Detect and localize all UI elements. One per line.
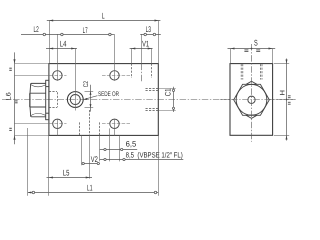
dimension L6 (vertical, far left): [5, 52, 49, 144]
V1 bore hidden lines (top): [131, 64, 133, 78]
mounting hole top-left: [53, 71, 62, 80]
svg-text:L2: L2: [34, 25, 39, 34]
hole axis verticals: [57, 34, 59, 81]
svg-text:C2: C2: [83, 81, 90, 87]
svg-text:L5: L5: [63, 168, 70, 177]
centerline overlay across side view: [220, 99, 296, 101]
hex nut face: [234, 84, 270, 115]
hole horizontal centerlines: [14, 75, 49, 77]
dimension 8,5 (VBPSE 1/2" FL): [100, 151, 184, 161]
main horizontal centerline: [2, 99, 296, 101]
dimension H: [274, 59, 291, 141]
mounting hole bottom-right: [110, 119, 119, 128]
bottom cluster extension verticals: [81, 135, 83, 165]
hex plug side view (left of block): [30, 83, 46, 116]
svg-text:C1: C1: [163, 88, 172, 96]
svg-text:L: L: [102, 12, 105, 21]
plug thread hidden lines inside block: [49, 91, 57, 93]
dimension L5: [47, 168, 93, 178]
dimension V2: [82, 155, 100, 165]
dimension L4: [46, 39, 77, 49]
dimension S: [228, 39, 276, 64]
mounting hole bottom-left: [53, 119, 62, 128]
nut chamfer circle: [236, 84, 267, 115]
plug washer / flange: [46, 80, 49, 119]
SEDE OR leader: [84, 91, 120, 100]
svg-text:V1: V1: [142, 39, 149, 48]
dimension V1: [130, 39, 153, 49]
svg-text:L7: L7: [83, 26, 88, 35]
svg-text:SEDE OR: SEDE OR: [98, 91, 119, 98]
svg-text:8,5 (VBPSE 1/2″ FL): 8,5 (VBPSE 1/2″ FL): [126, 151, 184, 160]
dimension L1: [28, 128, 159, 196]
V1 bore center line: [141, 34, 143, 64]
svg-text:L4: L4: [60, 39, 67, 48]
mounting hole top-right: [110, 71, 119, 80]
nut center hole: [248, 96, 255, 103]
svg-text:6,5: 6,5: [126, 140, 137, 149]
svg-text:L6: L6: [5, 92, 12, 101]
V1 extension lines above block: [131, 48, 133, 64]
front view body block: [49, 64, 158, 136]
dimension C1 (vertical, right side port): [158, 87, 176, 112]
side view vertical centerline: [251, 44, 253, 142]
side view block: [230, 64, 273, 136]
plug washer hex peeking above/below nut: [246, 81, 257, 84]
OR circle vertical centerline / L4 extension: [75, 48, 77, 111]
svg-text:V2: V2: [91, 155, 98, 164]
hidden hole lines side view top: [241, 64, 262, 79]
svg-text:H: H: [280, 90, 287, 96]
dimension L: [47, 12, 161, 64]
dimension L7: [61, 26, 111, 36]
bottom port hidden bore: [79, 122, 81, 135]
OR seat circle outer: [67, 92, 83, 108]
dimension L2: [21, 25, 114, 36]
svg-text:S: S: [254, 39, 258, 48]
dimension C2 (vertical, at OR seat): [83, 81, 93, 112]
side port hidden lines (right, C1): [146, 88, 159, 90]
OR seat circle inner: [70, 95, 80, 105]
dimension 6,5: [100, 140, 138, 151]
dimension L3: [140, 25, 161, 36]
svg-text:L1: L1: [87, 184, 93, 193]
svg-text:L3: L3: [146, 25, 152, 34]
